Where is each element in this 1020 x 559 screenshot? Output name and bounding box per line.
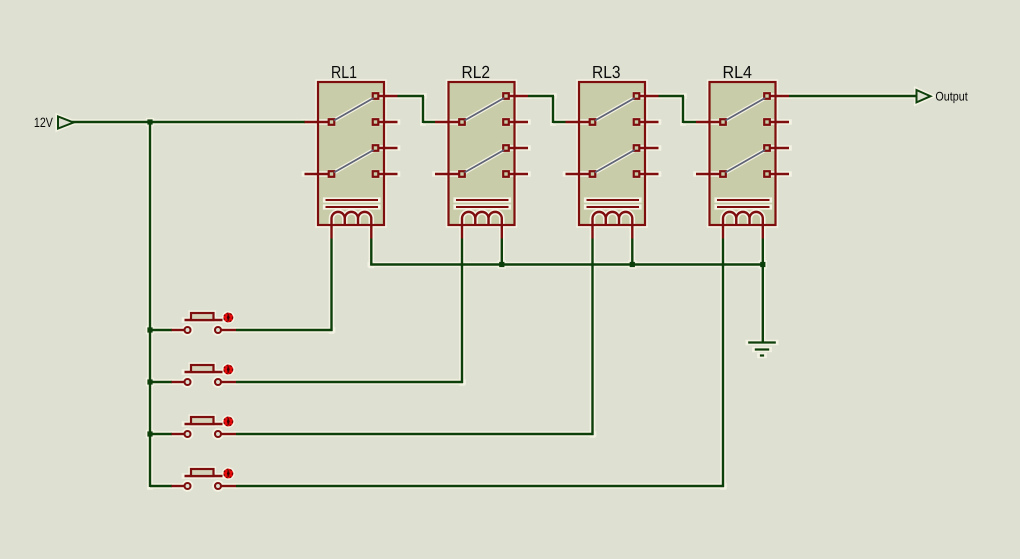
wire button4 feed bbox=[150, 485, 172, 487]
relay coil bbox=[723, 212, 763, 225]
wire button2 to RL2 coil bbox=[236, 381, 463, 383]
coil pin 2 bbox=[370, 225, 372, 239]
node G (RL4 return) bbox=[760, 262, 765, 267]
push-button SW1 cap bbox=[191, 313, 214, 320]
wire ground drop bbox=[762, 265, 764, 342]
pin NC2 (right) bbox=[634, 171, 659, 177]
coil pin 2 bbox=[631, 225, 633, 239]
ground bbox=[748, 343, 776, 356]
wire RL3-NO link h1 bbox=[659, 95, 685, 97]
pin NO2 (right) bbox=[764, 145, 789, 151]
push-button SW1 contact right bbox=[215, 327, 221, 333]
switch pole 2 bbox=[595, 150, 635, 173]
wire RL2 coil-right drop bbox=[501, 239, 503, 265]
switch pole 1 bbox=[465, 98, 505, 121]
node D (rail-button3) bbox=[147, 431, 152, 436]
relay coil bbox=[462, 212, 502, 225]
wire RL1-RL2 link h2 bbox=[423, 121, 435, 123]
push-button SW3 actuator bar bbox=[185, 423, 223, 425]
relay RL4 body bbox=[710, 82, 776, 225]
relay core bbox=[717, 200, 770, 207]
svg-text:RL4: RL4 bbox=[723, 62, 753, 82]
wire 12V rail vertical bbox=[149, 122, 151, 487]
push-button SW2 contact left bbox=[185, 379, 191, 385]
svg-text:Output: Output bbox=[935, 90, 968, 104]
push-button SW4 actuate marker bbox=[223, 469, 233, 479]
push-button SW4 cap bbox=[191, 469, 214, 476]
push-button SW2 lead right bbox=[222, 381, 237, 383]
wire RL3-RL4 link v bbox=[682, 96, 684, 123]
pin COM1 (left) bbox=[566, 119, 596, 125]
relay core bbox=[456, 200, 509, 207]
wire button1 to RL1 coil bbox=[236, 329, 333, 331]
pin NC1 (right) bbox=[503, 119, 528, 125]
push-button SW3 lead right bbox=[222, 433, 237, 435]
wire RL1 coil-right drop bbox=[370, 239, 372, 266]
push-button SW3 contact left bbox=[185, 431, 191, 437]
pin NC1 (right) bbox=[634, 119, 659, 125]
wire RL3 coil-right drop bbox=[631, 239, 633, 265]
svg-text:RL1: RL1 bbox=[331, 62, 357, 82]
pin COM1 (left) bbox=[696, 119, 726, 125]
node A (12V rail tap) bbox=[147, 119, 152, 124]
pin NO1 (right) bbox=[373, 93, 398, 99]
coil pin 1 bbox=[591, 225, 593, 239]
wire RL1 coil-left drop bbox=[330, 239, 332, 332]
pin NC1 (right) bbox=[373, 119, 398, 125]
pin NO2 (right) bbox=[634, 145, 659, 151]
push-button SW3 actuate marker bbox=[223, 417, 233, 427]
relay core bbox=[587, 200, 640, 207]
wire RL3-RL4 link h2 bbox=[683, 121, 696, 123]
switch pole 2 bbox=[465, 150, 505, 173]
terminal 12V bbox=[58, 117, 74, 129]
relay core bbox=[326, 200, 379, 207]
pin NO1 (right) bbox=[764, 93, 789, 99]
pin COM2 (left) bbox=[305, 171, 335, 177]
push-button SW1 actuate marker bbox=[223, 313, 233, 323]
svg-text:RL3: RL3 bbox=[592, 62, 621, 82]
pin COM2 (left) bbox=[435, 171, 465, 177]
pin COM1 (left) bbox=[435, 119, 465, 125]
pin NC2 (right) bbox=[764, 171, 789, 177]
relay coil bbox=[593, 212, 633, 225]
switch pole 1 bbox=[334, 98, 374, 121]
push-button SW3 contact right bbox=[215, 431, 221, 437]
push-button SW4 actuator bar bbox=[185, 475, 223, 477]
relay coil bbox=[332, 212, 372, 225]
switch pole 1 bbox=[595, 98, 635, 121]
wire button4 to RL4 coil bbox=[236, 485, 724, 487]
push-button SW1 lead left bbox=[172, 329, 185, 331]
wire button3 feed bbox=[150, 433, 172, 435]
push-button SW2 actuate marker bbox=[223, 365, 233, 375]
push-button SW4 contact right bbox=[215, 483, 221, 489]
coil pin 1 bbox=[461, 225, 463, 239]
wire button2 feed bbox=[150, 381, 172, 383]
push-button SW1 contact left bbox=[185, 327, 191, 333]
wire RL3 coil-left drop bbox=[591, 239, 593, 436]
wire ground bus bbox=[370, 263, 763, 265]
push-button SW2 lead left bbox=[172, 381, 185, 383]
pin COM2 (left) bbox=[566, 171, 596, 177]
node B (rail-button1) bbox=[147, 327, 152, 332]
coil pin 1 bbox=[722, 225, 724, 239]
svg-text:12V: 12V bbox=[34, 115, 53, 130]
wire RL4-NO to output bbox=[789, 95, 916, 97]
wire RL1-RL2 link v bbox=[422, 96, 424, 123]
node F (RL3 return) bbox=[630, 262, 635, 267]
push-button SW4 contact left bbox=[185, 483, 191, 489]
pin NO1 (right) bbox=[503, 93, 528, 99]
wire RL1-NO link h1 bbox=[398, 95, 425, 97]
wire button1 feed bbox=[150, 329, 172, 331]
wire RL4 coil-right drop bbox=[762, 239, 764, 265]
relay RL1 body bbox=[318, 82, 384, 225]
pin COM1 (left) bbox=[305, 119, 335, 125]
pin NO1 (right) bbox=[634, 93, 659, 99]
relay RL2 body bbox=[449, 82, 515, 225]
wire RL2-NO link h1 bbox=[528, 95, 554, 97]
node E (RL2 return) bbox=[499, 262, 504, 267]
push-button SW3 cap bbox=[191, 417, 214, 424]
wire RL2 coil-left drop bbox=[461, 239, 463, 384]
coil pin 2 bbox=[762, 225, 764, 239]
push-button SW1 actuator bar bbox=[185, 319, 223, 321]
pin NC2 (right) bbox=[503, 171, 528, 177]
push-button SW2 contact right bbox=[215, 379, 221, 385]
push-button SW3 lead left bbox=[172, 433, 185, 435]
push-button SW4 lead left bbox=[172, 485, 185, 487]
switch pole 2 bbox=[726, 150, 766, 173]
node C (rail-button2) bbox=[147, 379, 152, 384]
coil pin 1 bbox=[330, 225, 332, 239]
coil pin 2 bbox=[501, 225, 503, 239]
terminal Output bbox=[917, 90, 931, 102]
push-button SW2 actuator bar bbox=[185, 371, 223, 373]
push-button SW4 lead right bbox=[222, 485, 237, 487]
switch pole 2 bbox=[334, 150, 374, 173]
pin NC2 (right) bbox=[373, 171, 398, 177]
svg-text:RL2: RL2 bbox=[462, 62, 491, 82]
pin NO2 (right) bbox=[373, 145, 398, 151]
pin COM2 (left) bbox=[696, 171, 726, 177]
wire RL4 coil-left drop bbox=[722, 239, 724, 488]
push-button SW2 cap bbox=[191, 365, 214, 372]
relay RL3 body bbox=[579, 82, 645, 225]
wire 12V feed bbox=[72, 121, 305, 123]
push-button SW1 lead right bbox=[222, 329, 237, 331]
pin NC1 (right) bbox=[764, 119, 789, 125]
wire RL2-RL3 link v bbox=[552, 96, 554, 123]
wire button3 to RL3 coil bbox=[236, 433, 594, 435]
wire RL2-RL3 link h2 bbox=[553, 121, 566, 123]
pin NO2 (right) bbox=[503, 145, 528, 151]
switch pole 1 bbox=[726, 98, 766, 121]
